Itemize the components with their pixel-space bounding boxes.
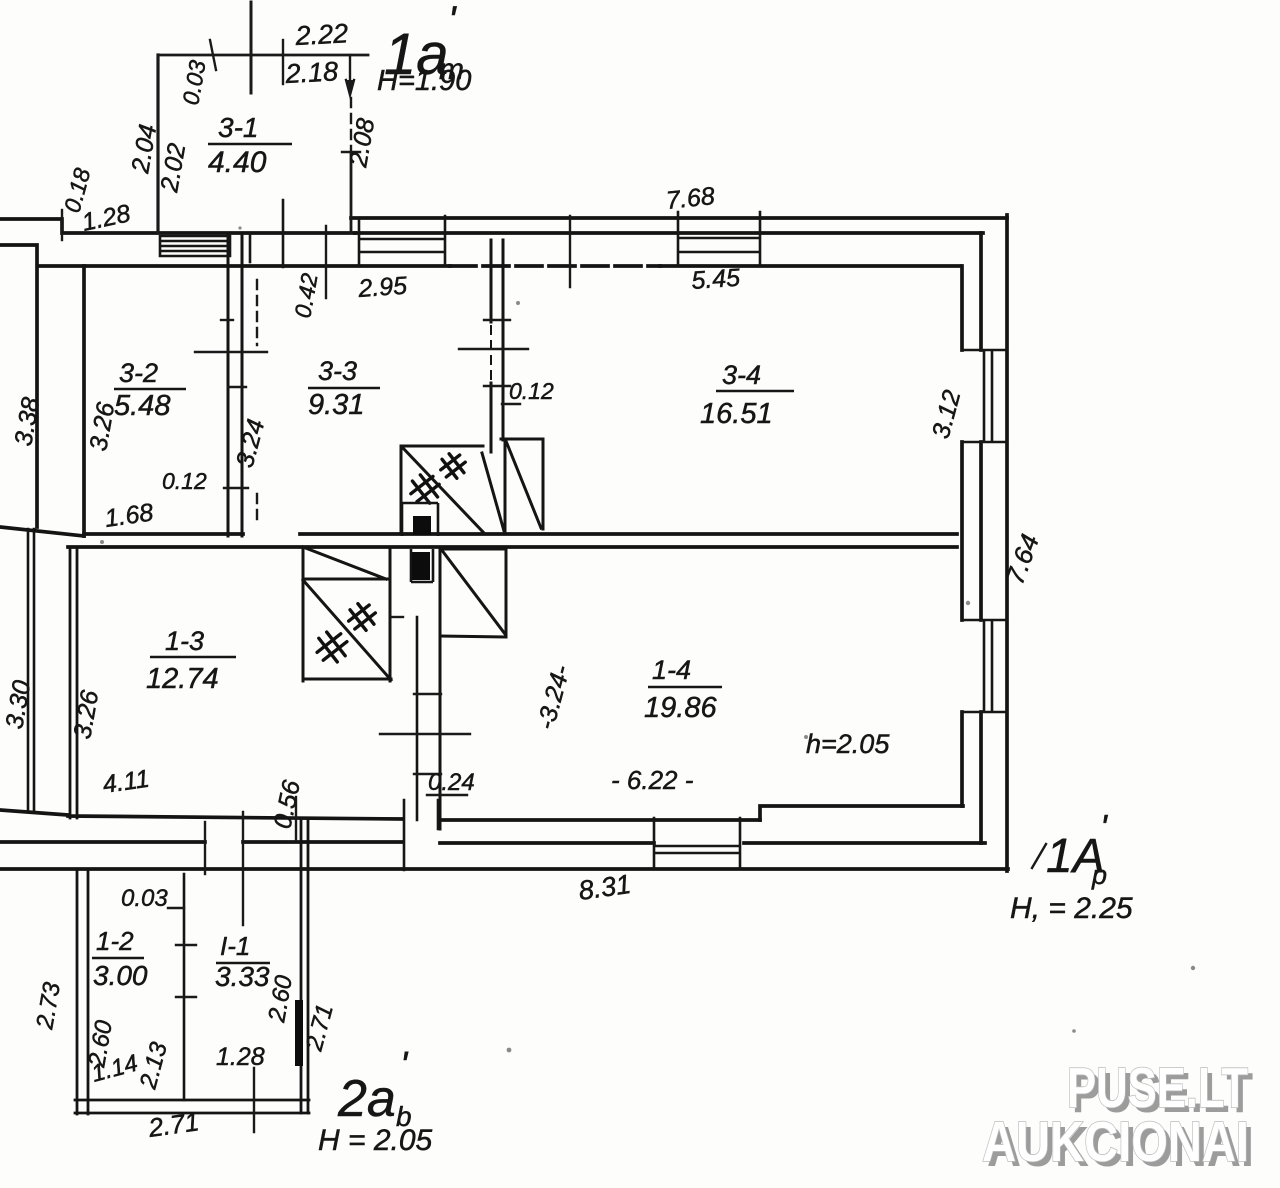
flue recess outline upper [402, 503, 438, 536]
tick under 2.08 [342, 151, 360, 153]
wall between hall and 1-4 [416, 617, 419, 820]
svg-text:1-2: 1-2 [96, 926, 134, 956]
svg-text:7.68: 7.68 [665, 182, 716, 215]
svg-text:3.24: 3.24 [231, 416, 271, 470]
tick long y349 across 3-3 wall [459, 348, 528, 350]
tick door 3-3 upper [484, 319, 510, 321]
wire top dim line of porch [158, 54, 368, 57]
stair lower right block (below mid wall, room side) [440, 549, 506, 637]
svg-text:H = 2.05: H = 2.05 [318, 1124, 433, 1157]
stair lower big diagonal [303, 580, 391, 680]
svg-text:3.00: 3.00 [93, 960, 148, 991]
wall left adjacent structure lower horizontals [0, 527, 84, 536]
tick long y734 in 1-4 [380, 733, 470, 735]
svg-text:2.71: 2.71 [300, 1001, 338, 1054]
svg-text:2a: 2a [337, 1070, 396, 1128]
svg-text:4.11: 4.11 [101, 765, 151, 799]
flue black lower [412, 552, 430, 580]
wire bottom wall middle line [0, 842, 985, 843]
stair upper flight block [401, 446, 483, 534]
tick 0.12 underline 3-2 [224, 487, 248, 489]
tick door 3-3 lower [484, 385, 510, 387]
svg-text:12.74: 12.74 [146, 663, 219, 695]
wall extension bottom double [75, 1100, 309, 1113]
tick long at y352 across 3-2 wall [195, 351, 267, 353]
door leaf black extension right wall [295, 1000, 303, 1066]
wire mid wall lower line [68, 545, 957, 549]
wire stair handrail stub [390, 616, 403, 618]
window top-left glazed door x359-445 [359, 216, 445, 266]
tick bottom x205 [204, 822, 206, 874]
tick x325 crossing top wall [325, 226, 327, 298]
tick door 3-2 lower [228, 386, 246, 388]
svg-text:16.51: 16.51 [700, 398, 773, 430]
flue black upper [413, 516, 431, 535]
wall between 3-3 and 3-4 door dashes [490, 326, 492, 379]
stair upper narrow triangle 1 [482, 439, 505, 532]
svg-text:0.24: 0.24 [428, 769, 475, 796]
dim arrow 2.08 vertical [349, 55, 351, 93]
tick 0.03 bracket [168, 907, 184, 909]
tick door hall upper [414, 693, 441, 695]
svg-text:I-1: I-1 [220, 931, 250, 961]
svg-text:p: p [1091, 860, 1107, 890]
svg-text:3-1: 3-1 [218, 112, 258, 143]
svg-text:0.03: 0.03 [121, 885, 168, 912]
tick 0.24 underline [427, 794, 467, 796]
tick door hall lower [414, 773, 441, 775]
wire 2.08 solid extension to wall [350, 154, 353, 233]
wire top wall inner face right [660, 264, 960, 268]
svg-text:3.26: 3.26 [84, 400, 120, 453]
tick 0.56 x296 [295, 797, 297, 840]
svg-text:2.08: 2.08 [344, 116, 380, 170]
tick slanted bottom right corner [1032, 844, 1046, 868]
wall left adjacent lower verticals [28, 529, 34, 810]
wall left adjacent structure upper [0, 245, 37, 527]
wire top wall inner face middle dashed [450, 264, 660, 268]
svg-text:': ' [1100, 807, 1108, 848]
wire top outer wall right part [351, 216, 1007, 220]
svg-text:2.02: 2.02 [155, 141, 191, 195]
wall right inner face [960, 266, 964, 806]
wire bottom inner face of 1-3 and hall [0, 810, 403, 819]
wall porch left [156, 55, 159, 233]
wall between 3-2 and 3-3 [228, 234, 242, 536]
wire bottom inner face right of back door [440, 818, 760, 822]
svg-text:1.68: 1.68 [103, 498, 155, 533]
svg-text:9.31: 9.31 [308, 389, 364, 421]
dim dashed 3.24 room 3-3 [256, 280, 258, 522]
wall extension left double [77, 869, 88, 1114]
wire bottom wall outer line [0, 867, 1008, 871]
stair upper triangles top line [501, 438, 543, 441]
dim 2.08 dashed extension [350, 98, 352, 150]
stair upper narrow triangle 2 [506, 440, 543, 529]
hash marks lower stair [311, 626, 353, 668]
svg-text:2.18: 2.18 [284, 56, 339, 89]
tick at x283 on dim line [282, 40, 284, 84]
door porch threshold hatched sill [160, 236, 230, 256]
svg-text:2.95: 2.95 [356, 272, 408, 303]
wall right middle [979, 233, 983, 843]
svg-text:': ' [448, 0, 457, 43]
wall between 3-3 and 3-4 left line with door gap [490, 240, 493, 452]
svg-text:3-4: 3-4 [722, 360, 761, 390]
svg-text:5.48: 5.48 [114, 390, 170, 422]
wall extension right double [301, 820, 308, 1113]
tick step x62 [61, 210, 63, 240]
svg-text:3.33: 3.33 [215, 961, 270, 992]
window right upper 3.12 [962, 350, 1007, 442]
wall left building upper [82, 266, 86, 536]
svg-text:0.03: 0.03 [177, 58, 210, 107]
svg-text:3.26: 3.26 [68, 688, 104, 741]
door back opening jambs in bottom wall [404, 800, 438, 870]
svg-text:1-3: 1-3 [165, 626, 204, 656]
tick x570 crossing top wall [569, 216, 571, 287]
stair lower flight block [303, 547, 391, 681]
svg-text:2.22: 2.22 [294, 18, 349, 51]
svg-text:H, = 2.25: H, = 2.25 [1010, 892, 1133, 925]
svg-text:3-3: 3-3 [318, 356, 357, 386]
tick door 3-2 upper [221, 319, 233, 321]
window right lower [962, 620, 1007, 712]
stair lower top triangle [303, 547, 390, 579]
svg-text:1.28: 1.28 [216, 1043, 265, 1071]
door porch left jamb [249, 233, 252, 262]
svg-text:3.30: 3.30 [0, 678, 36, 731]
wall partition between 1-2 and 1-1 [183, 874, 186, 1100]
svg-text:3.38: 3.38 [9, 395, 45, 448]
tick 1.28 below x254 [253, 1068, 255, 1132]
svg-text:0.12: 0.12 [509, 378, 554, 404]
svg-text:1-4: 1-4 [652, 655, 691, 685]
wire top wall inner face left [40, 264, 450, 268]
svg-text:19.86: 19.86 [644, 692, 717, 724]
svg-text:8.31: 8.31 [577, 869, 633, 906]
door porch right jamb [282, 200, 285, 267]
svg-text:-3.24-: -3.24- [532, 662, 576, 732]
wire mid wall upper line [84, 532, 957, 536]
hash marks upper stair [405, 469, 444, 508]
window bottom wall x654-744 [654, 818, 740, 869]
tick bottom x243 [242, 812, 244, 925]
svg-text:0.12: 0.12 [162, 468, 207, 494]
svg-text:0.42: 0.42 [289, 271, 322, 320]
svg-text:3-2: 3-2 [119, 358, 158, 388]
tick 0.12 underline 3-3 [502, 403, 520, 405]
wall right outer [1005, 215, 1009, 871]
wire top wall second line (left-to-right long) [355, 231, 983, 235]
svg-text:AUKCIONAI: AUKCIONAI [982, 1110, 1249, 1174]
tick partition door marks [176, 945, 196, 997]
svg-text:H=1.90: H=1.90 [377, 65, 471, 97]
svg-text:2.13: 2.13 [134, 1039, 173, 1093]
svg-text:5.45: 5.45 [690, 264, 741, 295]
svg-text:h=2.05: h=2.05 [806, 729, 890, 759]
wire top outer wall left step segment [0, 219, 355, 233]
svg-text:4.40: 4.40 [208, 146, 267, 179]
wire room 1-4 floor step [760, 806, 963, 820]
flue recess outline lower [411, 549, 433, 582]
svg-text:2.73: 2.73 [31, 980, 66, 1032]
tick slanted on porch dim line [210, 40, 216, 70]
window top 3-4 x678-760 [678, 212, 760, 266]
svg-text:3.12: 3.12 [927, 387, 967, 441]
svg-text:': ' [400, 1045, 409, 1087]
wall left building lower double [70, 547, 77, 818]
svg-text:2.71: 2.71 [146, 1106, 201, 1143]
wall between 3-3 and 3-4 right line [502, 240, 505, 440]
svg-text:- 6.22 -: - 6.22 - [611, 765, 694, 795]
tick tall at x251 [250, 2, 253, 93]
